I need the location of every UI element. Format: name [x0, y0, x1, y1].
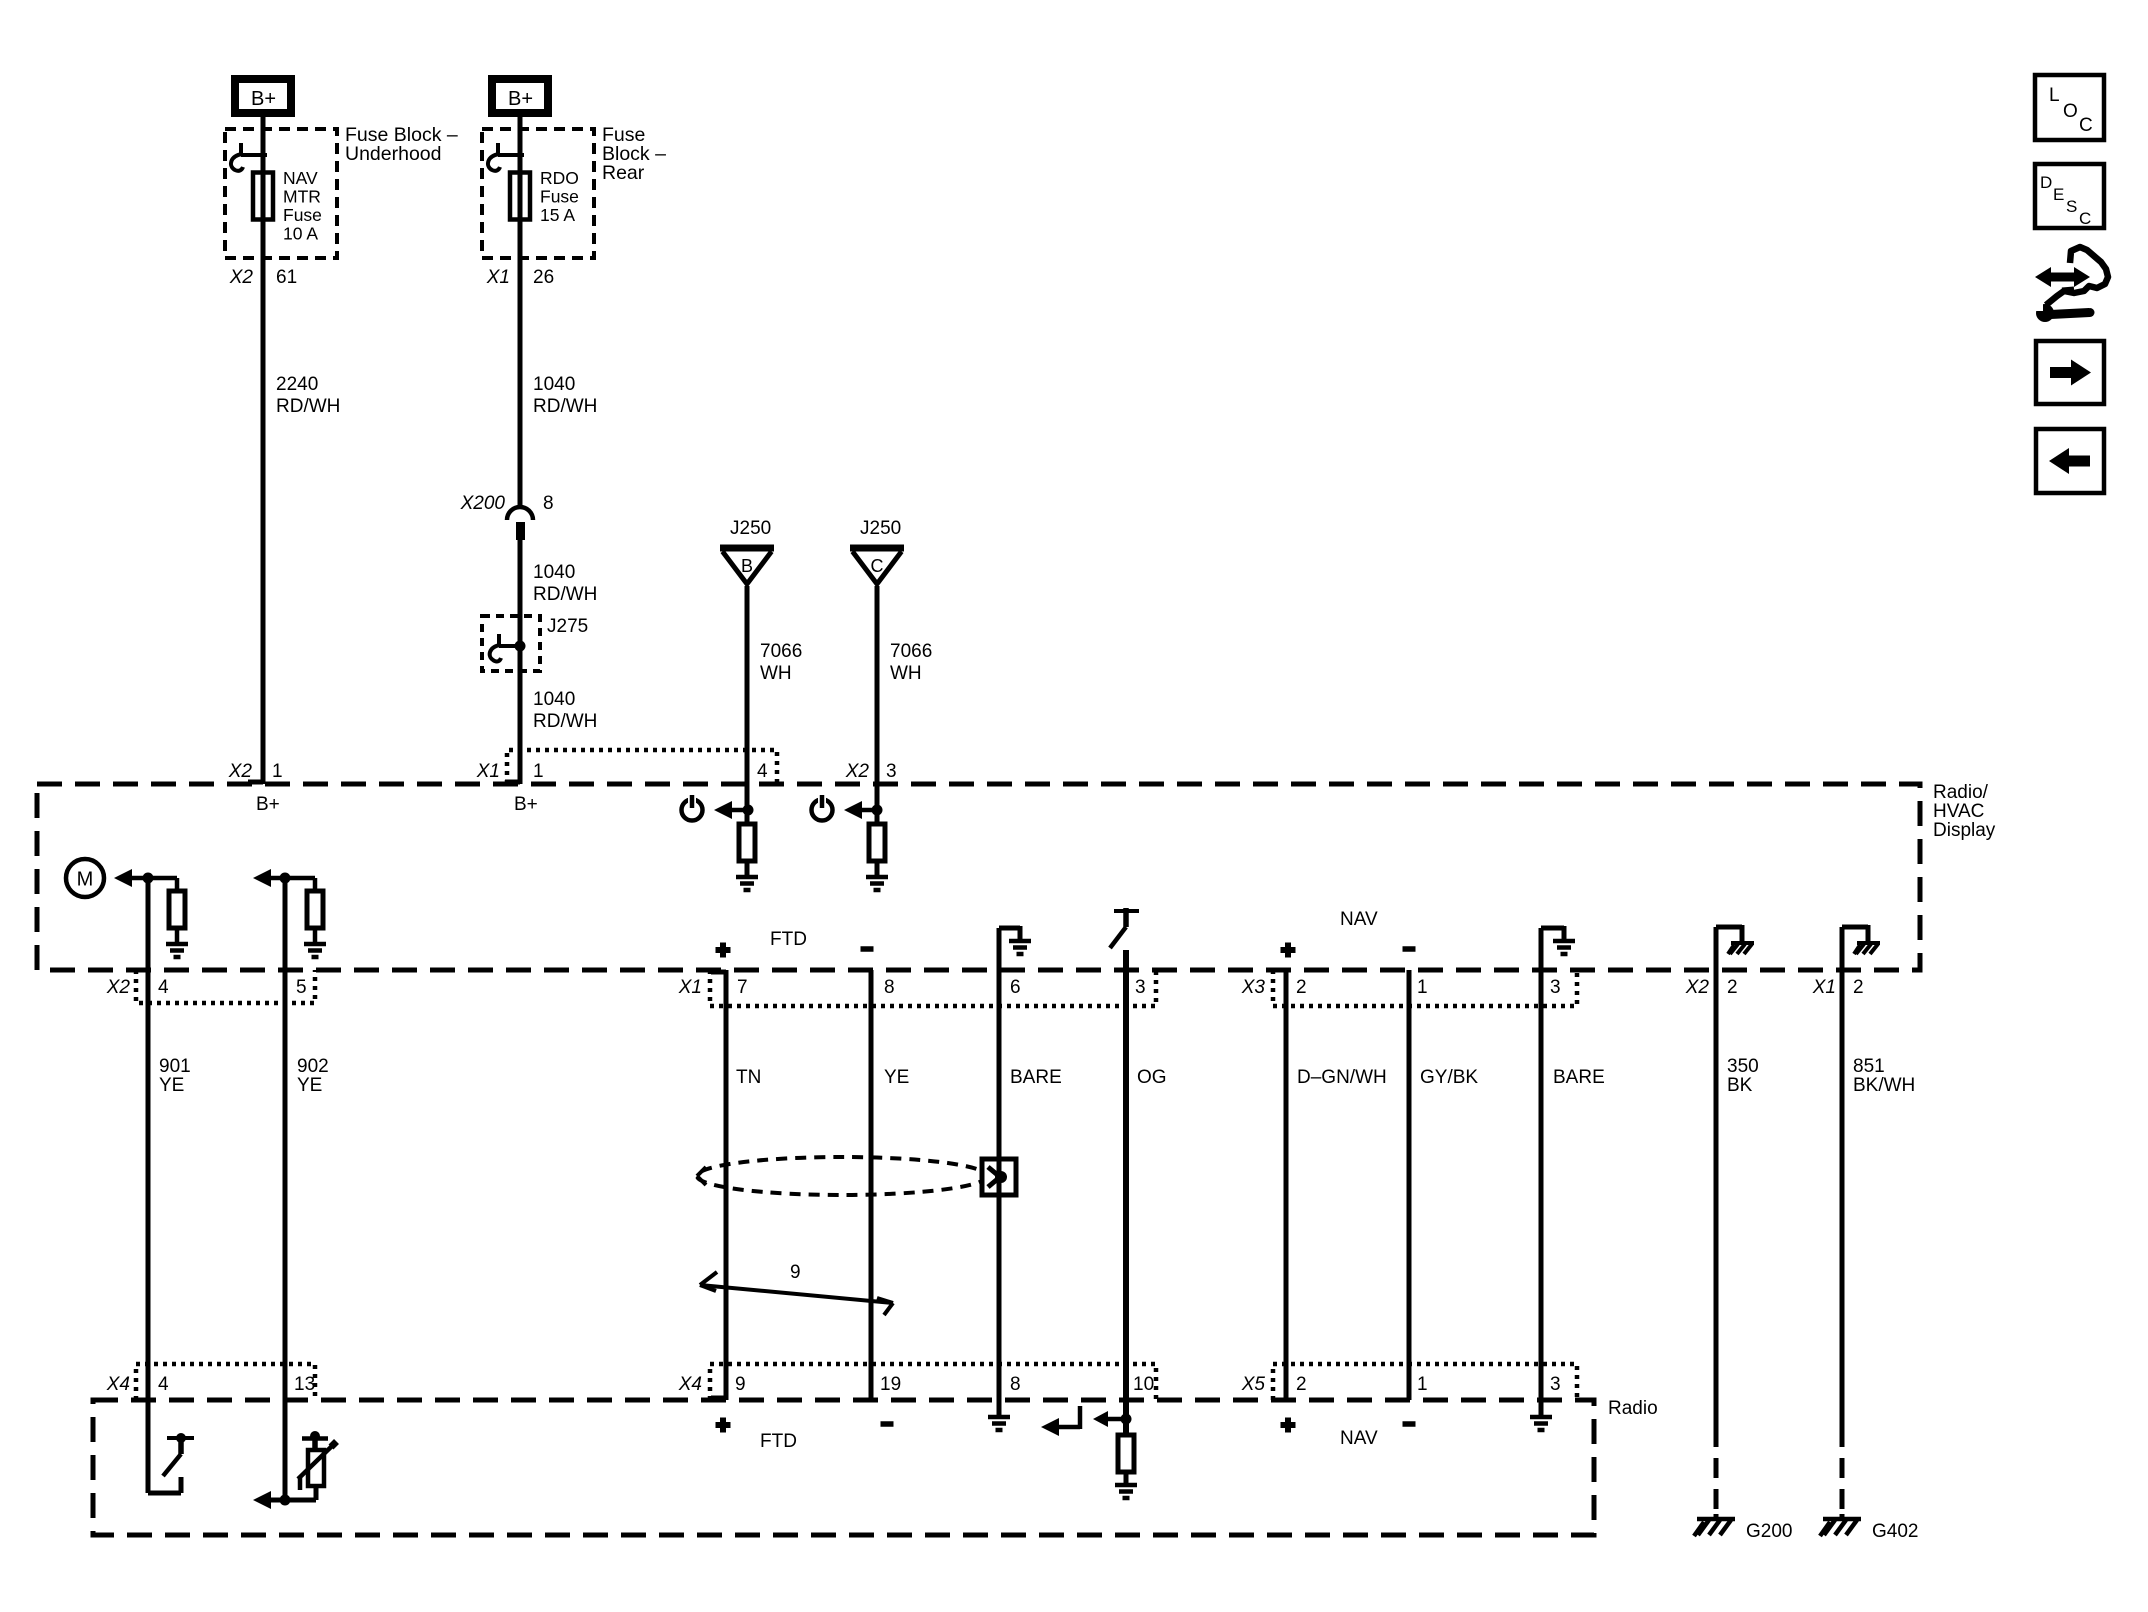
svg-text:YE: YE — [159, 1075, 184, 1096]
svg-text:RD/WH: RD/WH — [533, 711, 597, 732]
ground G402 — [1820, 1519, 1918, 1542]
power feed B+ terminal 1 — [235, 79, 291, 113]
switch inside radio at pin 4 — [148, 1400, 194, 1493]
wire label 2240 RD/WH — [276, 374, 340, 417]
wire foot at X1-1 — [505, 780, 520, 785]
svg-text:Fuse: Fuse — [283, 205, 322, 225]
label Fuse Block - Underhood — [345, 124, 458, 165]
svg-text:B+: B+ — [251, 88, 276, 110]
connector X2 dotted pin box bottom of radio/hvac — [106, 970, 315, 1003]
ground hook at X3 pin 3 — [1541, 926, 1575, 970]
power-on symbol for pin 4 circuit — [682, 794, 754, 821]
svg-text:15 A: 15 A — [540, 205, 575, 225]
svg-text:10 A: 10 A — [283, 224, 318, 244]
svg-text:7066: 7066 — [760, 641, 802, 662]
node - NAV top — [1403, 946, 1416, 952]
svg-text:8: 8 — [884, 977, 895, 998]
svg-text:X2: X2 — [106, 977, 131, 998]
ground under pin 10 resistor — [1115, 1485, 1137, 1498]
component Radio/HVAC Display dashed box — [37, 784, 1920, 970]
svg-text:X200: X200 — [460, 493, 506, 514]
svg-text:X1: X1 — [476, 761, 500, 782]
ground G200 — [1694, 1519, 1792, 1542]
ground hook at pin 6 — [999, 926, 1031, 970]
svg-text:X4: X4 — [678, 1374, 702, 1395]
svg-text:3: 3 — [886, 761, 897, 782]
twisted pair marker around TN and YE — [697, 1157, 987, 1195]
svg-text:C: C — [2079, 209, 2091, 228]
svg-text:901: 901 — [159, 1056, 191, 1077]
svg-text:O: O — [2063, 101, 2078, 122]
svg-text:X1: X1 — [678, 977, 702, 998]
wire 350 BK from X2-2 to G200 — [1714, 970, 1719, 1519]
pin X2 61 of underhood fuse block — [229, 267, 297, 288]
connector X4 dotted pin box middle on radio — [678, 1364, 1156, 1400]
pin X2 2 at radio/hvac bottom right — [1685, 977, 1738, 998]
svg-text:D: D — [2040, 173, 2052, 192]
svg-text:X2: X2 — [845, 761, 870, 782]
wire GY/BK from X3-1 to X5-1 — [1407, 970, 1412, 1400]
svg-text:61: 61 — [276, 267, 297, 288]
svg-text:MTR: MTR — [283, 187, 321, 207]
svg-text:2240: 2240 — [276, 374, 318, 395]
svg-text:8: 8 — [1010, 1374, 1021, 1395]
arrow to motor from pin 5 junction — [253, 869, 291, 887]
wire from B+ 1 into Fuse Block - Underhood — [261, 113, 266, 784]
svg-text:851: 851 — [1853, 1056, 1885, 1077]
wire label 7066 WH left — [760, 641, 802, 684]
svg-text:Radio/: Radio/ — [1933, 782, 1989, 803]
fuse NAV MTR 10A — [253, 171, 273, 221]
svg-text:BK: BK — [1727, 1075, 1753, 1096]
svg-text:J250: J250 — [730, 518, 771, 539]
label Radio — [1608, 1398, 1658, 1419]
label Radio/HVAC Display — [1933, 782, 1996, 841]
svg-text:350: 350 — [1727, 1056, 1759, 1077]
wire label YE — [884, 1067, 909, 1088]
icon button next arrow — [2036, 341, 2104, 404]
pin X2 1 at radio/hvac top — [228, 761, 283, 782]
svg-text:7066: 7066 — [890, 641, 932, 662]
wire label 7066 WH right — [890, 641, 932, 684]
label FTD bottom — [760, 1431, 797, 1452]
svg-text:RD/WH: RD/WH — [533, 584, 597, 605]
wire label 902 YE — [297, 1056, 329, 1096]
clip hook in fuse block underhood — [231, 143, 267, 171]
svg-text:3: 3 — [1550, 977, 1561, 998]
node + NAV top — [1281, 943, 1296, 958]
svg-text:4: 4 — [158, 1374, 169, 1395]
svg-text:1: 1 — [272, 761, 283, 782]
ground inside radio/hvac under X2-3 resistor — [866, 877, 888, 890]
chassis ground hook at X1-2 — [1842, 925, 1880, 970]
svg-text:2: 2 — [1296, 977, 1307, 998]
svg-text:3: 3 — [1550, 1374, 1561, 1395]
svg-text:X2: X2 — [228, 761, 253, 782]
svg-text:19: 19 — [880, 1374, 901, 1395]
wire J275 to radio/hvac X1-1 — [518, 671, 523, 784]
svg-text:B+: B+ — [256, 794, 280, 815]
svg-text:1040: 1040 — [533, 562, 575, 583]
svg-text:Fuse: Fuse — [540, 187, 579, 207]
wire J250-B to radio/hvac pin 4 — [745, 586, 750, 784]
label NAV MTR Fuse 10 A — [283, 168, 322, 244]
wire TN from X1-7 to X4-9 — [711, 970, 726, 1400]
svg-text:X1: X1 — [486, 267, 510, 288]
thermistor inside radio at pin 13 — [253, 1400, 337, 1509]
svg-text:4: 4 — [158, 977, 169, 998]
svg-text:GY/BK: GY/BK — [1420, 1067, 1478, 1088]
node + FTD bottom — [716, 1418, 731, 1433]
resistor to ground from motor node 2 — [285, 878, 323, 944]
node B+ inside radio/hvac left — [256, 794, 280, 815]
page pointer arrow near pin 10 — [1041, 1406, 1080, 1436]
svg-text:M: M — [77, 869, 94, 891]
svg-text:8: 8 — [543, 493, 554, 514]
svg-text:2: 2 — [1296, 1374, 1307, 1395]
svg-text:9: 9 — [790, 1262, 801, 1283]
svg-text:OG: OG — [1137, 1067, 1167, 1088]
node B+ inside radio/hvac middle — [514, 794, 538, 815]
svg-text:G200: G200 — [1746, 1521, 1792, 1542]
svg-text:C: C — [871, 556, 884, 576]
wire label 851 BK/WH — [1853, 1056, 1915, 1096]
ground at X4 pin 8 inside radio — [988, 1400, 1010, 1430]
label NAV bottom — [1340, 1428, 1378, 1449]
svg-text:1: 1 — [1417, 977, 1428, 998]
wire BARE shield drain from X1-6 to X4-8 — [997, 970, 1002, 1400]
fuse block underhood dashed box — [225, 129, 337, 258]
resistor to ground from pin 4 — [739, 784, 755, 877]
wire BARE shield drain from X3-3 to X5-3 — [1539, 970, 1544, 1400]
svg-text:X3: X3 — [1241, 977, 1266, 998]
icon button LOC — [2035, 75, 2104, 140]
pin X2 3 at radio/hvac top — [845, 761, 897, 782]
svg-text:1: 1 — [533, 761, 544, 782]
wire 851 BK/WH from X1-2 to G402 — [1840, 970, 1845, 1519]
svg-text:NAV: NAV — [1340, 1428, 1378, 1449]
node + NAV bottom — [1281, 1418, 1296, 1433]
svg-text:1040: 1040 — [533, 374, 575, 395]
splice pack J250 B — [720, 518, 774, 584]
wire 901 YE from X2-4 to X4-4 — [146, 878, 151, 1400]
svg-text:C: C — [2079, 115, 2093, 136]
splice J275 — [482, 616, 588, 671]
pin X1 26 of rear fuse block — [486, 267, 554, 288]
fuse block rear dashed box — [482, 129, 594, 258]
wire label GY/BK — [1420, 1067, 1478, 1088]
wire X200 to J275 — [518, 539, 523, 616]
node - FTD bottom — [881, 1421, 894, 1427]
svg-text:NAV: NAV — [1340, 909, 1378, 930]
svg-text:1: 1 — [1417, 1374, 1428, 1395]
chassis ground hook at X2-2 — [1716, 925, 1754, 970]
svg-text:Underhood: Underhood — [345, 143, 442, 165]
svg-text:6: 6 — [1010, 977, 1021, 998]
svg-text:J275: J275 — [547, 616, 588, 637]
svg-text:D–GN/WH: D–GN/WH — [1297, 1067, 1387, 1088]
svg-text:3: 3 — [1135, 977, 1146, 998]
svg-text:7: 7 — [737, 977, 748, 998]
node - FTD top — [861, 946, 874, 952]
ground inside radio/hvac under pin 4 resistor — [736, 877, 758, 890]
svg-text:13: 13 — [294, 1374, 315, 1395]
svg-text:902: 902 — [297, 1056, 329, 1077]
wire YE from X1-8 to X4-19 — [869, 970, 874, 1400]
resistor to ground from motor node 1 — [148, 878, 185, 944]
svg-text:BK/WH: BK/WH — [1853, 1075, 1915, 1096]
svg-text:9: 9 — [735, 1374, 746, 1395]
wire from B+ 2 into Fuse Block - Rear — [518, 113, 523, 508]
label FTD top — [770, 929, 807, 950]
svg-text:X2: X2 — [229, 267, 254, 288]
svg-text:Radio: Radio — [1608, 1398, 1658, 1419]
node - NAV bottom — [1403, 1421, 1416, 1427]
wire 902 YE from X2-5 to X4-13 — [283, 878, 288, 1400]
wire label 350 BK — [1727, 1056, 1759, 1096]
wire label BARE left — [1010, 1067, 1062, 1088]
connector X1 dotted pin box bottom of radio/hvac — [678, 970, 1156, 1006]
wire label OG — [1137, 1067, 1167, 1088]
svg-text:X1: X1 — [1812, 977, 1836, 998]
svg-text:S: S — [2066, 197, 2077, 216]
pin X1 2 at radio/hvac bottom right — [1812, 977, 1864, 998]
label Fuse Block - Rear — [602, 124, 666, 184]
power feed B+ terminal 2 — [492, 79, 548, 113]
icon button back arrow — [2036, 429, 2104, 493]
connector X1 dotted pin box top — [476, 750, 777, 784]
splice pack J250 C — [850, 518, 904, 584]
svg-text:HVAC: HVAC — [1933, 801, 1984, 822]
svg-text:RD/WH: RD/WH — [533, 396, 597, 417]
svg-text:YE: YE — [884, 1067, 909, 1088]
wire label 1040 RD/WH middle — [533, 562, 597, 605]
connector X5 dotted pin box on radio — [1241, 1364, 1577, 1400]
wire label TN — [736, 1067, 761, 1088]
svg-text:B+: B+ — [508, 88, 533, 110]
wire D-GN/WH from X3-2 to X5-2 — [1284, 970, 1289, 1400]
ground under motor resistor 1 — [166, 944, 188, 957]
svg-text:26: 26 — [533, 267, 554, 288]
ground at X5 pin 3 inside radio — [1530, 1400, 1552, 1430]
svg-text:X2: X2 — [1685, 977, 1710, 998]
shield termination box on BARE wire — [982, 1159, 1016, 1195]
svg-text:RD/WH: RD/WH — [276, 396, 340, 417]
resistor to ground from X2-3 — [869, 784, 885, 877]
svg-text:2: 2 — [1853, 977, 1864, 998]
svg-text:5: 5 — [296, 977, 307, 998]
node + FTD top — [716, 943, 731, 958]
cable note 9 with pointer line — [700, 1262, 893, 1315]
svg-text:Display: Display — [1933, 820, 1996, 841]
switch symbol at pin 3 — [1110, 908, 1139, 948]
connector X200 pin 8 — [460, 493, 554, 540]
icon hand with arrows and wrench — [2034, 247, 2108, 322]
wire label 1040 RD/WH upper — [533, 374, 597, 417]
ground under motor resistor 2 — [304, 944, 326, 957]
label NAV top — [1340, 909, 1378, 930]
svg-text:X4: X4 — [106, 1374, 130, 1395]
svg-text:1040: 1040 — [533, 689, 575, 710]
svg-text:4: 4 — [757, 761, 768, 782]
wire label D-GN/WH — [1297, 1067, 1387, 1088]
svg-text:B+: B+ — [514, 794, 538, 815]
svg-text:FTD: FTD — [760, 1431, 797, 1452]
clip hook in fuse block rear — [488, 143, 524, 171]
arrow to motor from pin 4 junction — [114, 869, 154, 887]
connector X4 dotted pin box left on radio — [106, 1364, 315, 1400]
svg-text:BARE: BARE — [1553, 1067, 1605, 1088]
svg-text:YE: YE — [297, 1075, 322, 1096]
svg-text:FTD: FTD — [770, 929, 807, 950]
svg-text:Rear: Rear — [602, 162, 645, 184]
svg-text:B: B — [741, 556, 753, 576]
arrow and resistor to ground at pin 10 — [1093, 1400, 1134, 1485]
svg-text:2: 2 — [1727, 977, 1738, 998]
wire J250-C to radio/hvac X2-3 — [875, 586, 880, 784]
wire label BARE right — [1553, 1067, 1605, 1088]
svg-text:G402: G402 — [1872, 1521, 1918, 1542]
svg-text:WH: WH — [890, 663, 922, 684]
wire label 901 YE — [159, 1056, 191, 1096]
icon button DESC — [2035, 164, 2104, 228]
svg-text:J250: J250 — [860, 518, 901, 539]
svg-text:NAV: NAV — [283, 168, 318, 188]
component Radio dashed box — [93, 1400, 1594, 1535]
svg-text:10: 10 — [1133, 1374, 1154, 1395]
svg-text:WH: WH — [760, 663, 792, 684]
fuse RDO 15A — [510, 171, 530, 221]
svg-text:L: L — [2049, 85, 2060, 106]
label RDO Fuse 15 A — [540, 168, 579, 225]
svg-text:RDO: RDO — [540, 168, 579, 188]
svg-text:TN: TN — [736, 1067, 761, 1088]
wire label 1040 RD/WH lower — [533, 689, 597, 732]
connector X3 dotted pin box bottom of radio/hvac — [1241, 970, 1577, 1006]
svg-text:X5: X5 — [1241, 1374, 1266, 1395]
wire OG from X1-3 to X4-10 — [1123, 950, 1129, 1400]
power-on symbol for X2-3 circuit — [812, 794, 883, 821]
svg-text:BARE: BARE — [1010, 1067, 1062, 1088]
motor M symbol — [66, 859, 104, 897]
svg-text:E: E — [2053, 185, 2064, 204]
